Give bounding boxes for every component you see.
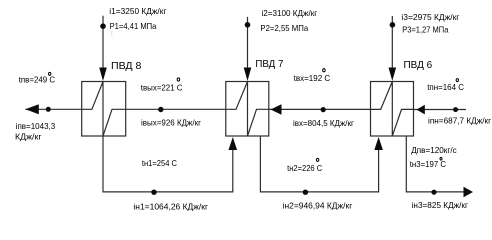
degree mark tпн [456, 79, 458, 82]
heater ПВД 6 box [371, 82, 414, 137]
node dot steam line 1 [100, 23, 106, 29]
node dot drain 1 [151, 190, 156, 195]
heater ПВД 6 internal coil zigzag [371, 82, 414, 137]
arrow drain 3 outlet right [464, 187, 474, 198]
wire steam line 2 [247, 17, 249, 72]
node dot drain 3 [431, 190, 436, 195]
svg-text:tн1=254 С: tн1=254 С [142, 158, 177, 168]
node dot steam line 2 [245, 22, 251, 28]
svg-text:iн1=1064,26 КДж/кг: iн1=1064,26 КДж/кг [133, 201, 208, 211]
wire feedwater segment left (outlet) [25, 108, 81, 110]
wire feedwater between ПВД 7 and ПВД 6 [269, 108, 371, 110]
svg-text:ПВД 8: ПВД 8 [111, 60, 142, 72]
arrow steam into ПВД 8 [99, 68, 107, 82]
arrow feedwater into ПВД 7 [271, 104, 282, 115]
svg-text:ПВД 6: ПВД 6 [404, 59, 433, 71]
heater ПВД 7 box [226, 82, 269, 137]
arrow drain 1 into ПВД 7 bottom [229, 137, 238, 150]
arrow feedwater outlet left [25, 104, 39, 114]
node dot feedwater after ПВД 7 [321, 107, 326, 112]
arrow steam into ПВД 7 [244, 68, 252, 82]
node dot feedwater inlet [453, 107, 458, 112]
svg-text:i2=3100 КДж/кг: i2=3100 КДж/кг [262, 8, 318, 18]
svg-text:i1=3250 КДж/кг: i1=3250 КДж/кг [109, 6, 166, 16]
svg-text:P1=4,41 МПа: P1=4,41 МПа [110, 21, 157, 31]
arrow steam into ПВД 6 [389, 68, 397, 82]
node dot drain 2 [303, 190, 308, 195]
heater ПВД 8 internal coil zigzag [82, 82, 126, 137]
svg-text:P3=1,27 МПа: P3=1,27 МПа [402, 25, 448, 35]
svg-text:ПВД 7: ПВД 7 [255, 58, 283, 70]
node dot steam line 3 [390, 22, 396, 28]
degree mark tвх [323, 69, 326, 72]
svg-text:iпн=687,7 КДж/кг: iпн=687,7 КДж/кг [428, 115, 491, 125]
heater ПВД 7 internal coil zigzag [226, 82, 269, 137]
node dot feedwater outlet [46, 107, 51, 112]
svg-text:tпв=249 С: tпв=249 С [19, 75, 55, 85]
arrow drain 2 into ПВД 6 bottom [374, 137, 383, 150]
wire feedwater between ПВД 8 and ПВД 7 [126, 108, 226, 110]
degree mark tвых [177, 78, 180, 81]
svg-text:tвх=192 С: tвх=192 С [294, 73, 331, 83]
wire steam line 1 [102, 16, 104, 72]
wire steam line 3 [391, 16, 393, 72]
node dot feedwater after ПВД 8 [158, 107, 163, 112]
wire feedwater right inlet segment [414, 109, 467, 111]
svg-text:tн2=226 С: tн2=226 С [287, 163, 322, 173]
wire drain line 2 (ПВД 7 to ПВД 6) [260, 136, 378, 192]
degree mark tпв [49, 72, 51, 75]
heater ПВД 8 box [82, 82, 126, 137]
degree mark tн3 [440, 157, 442, 160]
svg-text:tпн=164 С: tпн=164 С [427, 82, 464, 92]
degree mark tн2 [316, 158, 318, 161]
svg-text:P2=2,55 МПа: P2=2,55 МПа [260, 23, 308, 33]
svg-text:iпв=1043,3: iпв=1043,3 [16, 121, 56, 131]
svg-text:Дпв=120кг/с: Дпв=120кг/с [411, 145, 457, 155]
svg-text:iвх=804,5 КДж/кг: iвх=804,5 КДж/кг [293, 118, 354, 128]
svg-text:tвых=221 С: tвых=221 С [141, 82, 183, 92]
svg-text:iвых=926 КДж/кг: iвых=926 КДж/кг [141, 118, 201, 128]
svg-text:iн2=946,94 КДж/кг: iн2=946,94 КДж/кг [283, 200, 353, 210]
svg-text:КДж/кг: КДж/кг [15, 131, 42, 141]
wire drain line 1 (ПВД 8 to ПВД 7) [103, 136, 233, 192]
svg-text:iн3=825 КДж/кг: iн3=825 КДж/кг [412, 200, 468, 210]
arrow feedwater into ПВД 6 [417, 105, 425, 115]
wire drain line 3 (ПВД 6 outlet) [406, 136, 464, 192]
artifact yellow tick [111, 31, 112, 36]
svg-text:i3=2975 КДж/кг: i3=2975 КДж/кг [401, 12, 459, 22]
